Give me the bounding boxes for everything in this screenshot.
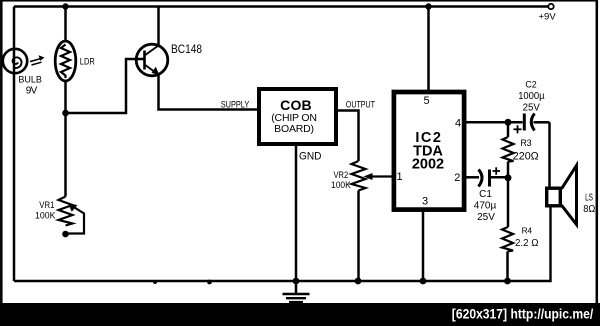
wire pin4 row <box>466 121 523 124</box>
svg-text:2: 2 <box>454 172 460 184</box>
wire bottom rail <box>14 208 551 282</box>
potentiometer VR2 <box>352 161 393 191</box>
node junction VR2 bottom <box>355 278 362 285</box>
svg-text:9V: 9V <box>26 86 38 97</box>
wire pin5 to rail <box>427 7 430 92</box>
svg-text:25V: 25V <box>523 102 541 113</box>
svg-text:2002: 2002 <box>412 157 444 173</box>
capacitor C2 <box>514 114 550 134</box>
svg-text:R3: R3 <box>520 138 531 148</box>
svg-text:100K: 100K <box>35 211 56 222</box>
svg-text:+9V: +9V <box>539 11 557 22</box>
wire LDR to base <box>66 59 145 113</box>
svg-text:BULB: BULB <box>18 75 42 85</box>
node junction rail pin5 <box>425 3 431 9</box>
svg-text:C2: C2 <box>525 79 536 89</box>
node junction VR1 bottom loop <box>62 231 69 238</box>
node junction C1/R3/R4 <box>505 174 512 181</box>
wire top supply rail <box>14 5 549 8</box>
ground symbol <box>283 294 310 305</box>
svg-text:25V: 25V <box>477 212 495 223</box>
resistor R3 <box>503 122 514 178</box>
svg-text:C1: C1 <box>479 189 492 200</box>
svg-text:COB: COB <box>280 97 312 113</box>
svg-text:100K: 100K <box>331 180 351 191</box>
light arrow <box>30 55 45 65</box>
node junction LDR bottom <box>62 110 69 117</box>
COB U1 box <box>259 89 336 144</box>
node junction top rail / LDR <box>62 3 68 9</box>
wire bulb branch x=14 <box>13 7 16 50</box>
node junction pin4/R3 <box>505 119 512 126</box>
svg-text:220Ω: 220Ω <box>513 151 539 163</box>
wire collector x=158.5 <box>157 7 160 46</box>
capacitor C1 <box>479 167 509 186</box>
potentiometer VR1 <box>59 197 85 234</box>
svg-text:1: 1 <box>396 171 402 183</box>
LDR R1 <box>55 41 76 81</box>
svg-text:BOARD): BOARD) <box>274 123 314 135</box>
wire C2 to speaker <box>548 122 551 186</box>
+9V terminal <box>539 4 557 23</box>
wire LDR branch x=65.5 <box>64 7 67 43</box>
node junction R4 bottom <box>504 278 511 285</box>
IC2 box TDA2002 <box>394 92 464 210</box>
svg-text:LS: LS <box>585 193 593 204</box>
svg-text:BC148: BC148 <box>171 44 202 56</box>
bulb B1 <box>3 49 27 73</box>
svg-text:OUTPUT: OUTPUT <box>346 100 375 111</box>
svg-text:VR1: VR1 <box>39 200 54 210</box>
svg-text:1000µ: 1000µ <box>518 91 545 102</box>
svg-text:R4: R4 <box>522 226 533 236</box>
transistor Q1 BC148 <box>136 44 168 76</box>
node junction pin3 bottom <box>420 278 427 285</box>
node junction bottom bumps <box>153 280 157 284</box>
wire COB output to VR2 <box>338 111 359 162</box>
svg-text:470µ: 470µ <box>474 201 497 212</box>
resistor R4 <box>502 178 513 281</box>
svg-text:SUPPLY: SUPPLY <box>221 99 250 110</box>
node junction gnd <box>293 278 300 285</box>
svg-text:LDR: LDR <box>80 56 95 67</box>
wire emitter to COB supply <box>159 75 258 110</box>
svg-text:2.2 Ω: 2.2 Ω <box>515 237 539 249</box>
wire COB gnd <box>295 146 298 294</box>
svg-text:[620x317] http://upic.me/: [620x317] http://upic.me/ <box>452 307 594 322</box>
black caption bar <box>0 303 600 326</box>
wire pin2 row <box>466 176 479 179</box>
wire pin3 to rail <box>422 211 425 281</box>
svg-text:5: 5 <box>423 95 429 107</box>
wire VR2 bottom <box>357 191 360 282</box>
svg-text:GND: GND <box>299 151 322 163</box>
speaker LS <box>547 166 577 225</box>
svg-text:4: 4 <box>455 117 461 129</box>
svg-text:8Ω: 8Ω <box>583 203 595 215</box>
svg-text:3: 3 <box>422 195 428 207</box>
